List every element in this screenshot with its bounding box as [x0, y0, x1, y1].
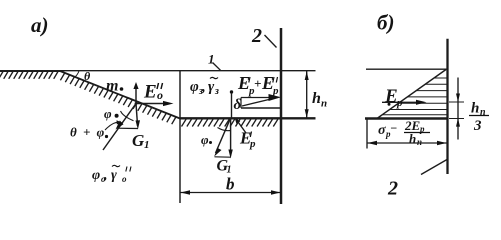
- node P1 on slope: [135, 102, 138, 105]
- svg-text:2: 2: [251, 25, 262, 47]
- dimension line under sigma label: [367, 142, 447, 144]
- angle theta arc: [75, 71, 80, 77]
- svg-text:−: −: [390, 121, 397, 135]
- wall line 2 (panel a): [280, 28, 283, 204]
- svg-text:б): б): [377, 11, 394, 35]
- block arrow E'p+E''p (wedge): [241, 97, 271, 99]
- force arrow G1 (weight, down) at P1: [136, 104, 138, 127]
- svg-text:φ: φ: [201, 132, 209, 147]
- angle phi0 arc at P1: [121, 111, 134, 121]
- wall line (panel b): [446, 39, 448, 174]
- force triangle closing line: [117, 127, 138, 129]
- left extension line (panel b dimension): [366, 118, 368, 149]
- hatching under left ground surface: [0, 72, 58, 79]
- slope line: [60, 71, 180, 119]
- vertical reference line with dot (delta reference): [230, 90, 233, 93]
- svg-text:п: п: [321, 98, 327, 110]
- ground surface line (top horizontal, left thick part): [0, 70, 63, 72]
- svg-text:m: m: [106, 78, 118, 95]
- svg-text:р: р: [272, 85, 279, 97]
- svg-text:о: о: [122, 174, 127, 184]
- svg-text:р: р: [249, 138, 256, 150]
- svg-text:р: р: [396, 97, 403, 109]
- svg-text:3: 3: [473, 118, 482, 134]
- svg-text:φ: φ: [104, 106, 112, 121]
- pressure diagram diagonal: [377, 70, 446, 119]
- dimension h_p/3 (panel b right): [457, 78, 459, 140]
- svg-text:b: b: [226, 175, 235, 194]
- svg-text:γ: γ: [208, 79, 215, 95]
- svg-text:,: ,: [103, 168, 108, 183]
- base ground line (lower horizontal): [180, 117, 316, 119]
- svg-text:σ: σ: [378, 123, 386, 138]
- hatching under slope: [60, 73, 176, 124]
- svg-text:θ: θ: [84, 69, 91, 83]
- svg-text:п: п: [417, 137, 422, 147]
- svg-text:о: о: [157, 88, 163, 102]
- vertical up arrow at P1: [135, 85, 137, 104]
- svg-text:δ: δ: [234, 97, 242, 113]
- force arrow G1 (middle, down): [230, 118, 232, 155]
- svg-text:γ: γ: [111, 168, 117, 183]
- svg-text:h: h: [471, 101, 479, 117]
- resultant R line extended down-left: [103, 104, 136, 151]
- left border line of backfill prism: [179, 71, 181, 203]
- svg-text:E: E: [143, 82, 157, 103]
- dimension b (bottom): [180, 192, 281, 194]
- svg-text:+: +: [254, 76, 261, 91]
- svg-text:п: п: [480, 107, 486, 118]
- top surface line (panel b): [366, 68, 447, 70]
- surface reference line 1 (thin horizontal to wall and beyond): [61, 70, 316, 72]
- force arrow Ep (panel b): [382, 101, 421, 103]
- svg-text:1: 1: [144, 139, 150, 151]
- svg-text:φ: φ: [92, 168, 100, 183]
- label E'p with leader arrow: [236, 119, 247, 134]
- base line (panel b, thick): [365, 117, 448, 119]
- arrowhead of R: [116, 121, 124, 130]
- svg-text:h: h: [409, 131, 416, 146]
- svg-text:E: E: [384, 86, 398, 107]
- force arrow E''o horizontal: [136, 103, 169, 105]
- horizontal hatch lines of pressure triangle: [382, 78, 446, 115]
- leader arc from label to R line: [105, 122, 120, 130]
- closing line of force triangle (middle): [215, 156, 231, 158]
- angle phi0 arc (middle): [218, 128, 231, 131]
- svg-text:з: з: [214, 86, 219, 97]
- hatching under base line: [182, 119, 278, 126]
- svg-text:θ + φ: θ + φ: [70, 125, 106, 140]
- dimension h_p (panel a right): [306, 71, 308, 118]
- svg-text:h: h: [312, 90, 321, 107]
- svg-text:а): а): [31, 13, 49, 37]
- svg-text:φ: φ: [190, 79, 199, 95]
- svg-text:2: 2: [387, 178, 398, 200]
- resultant R (middle, down-left): [216, 118, 231, 153]
- svg-text:,: ,: [201, 79, 206, 95]
